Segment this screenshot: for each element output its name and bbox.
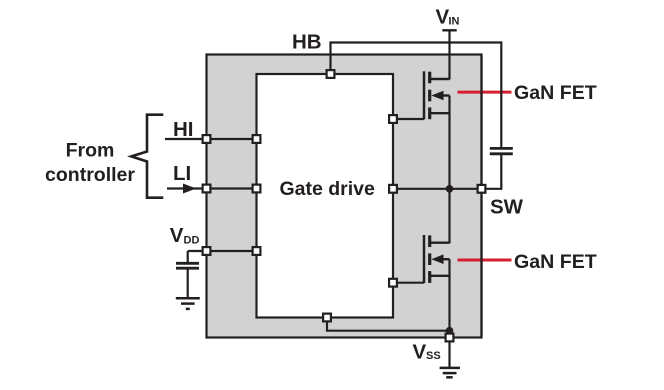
- svg-text:SW: SW: [490, 196, 524, 219]
- svg-text:LI: LI: [173, 162, 191, 185]
- svg-text:V: V: [436, 5, 450, 28]
- svg-text:Gate drive: Gate drive: [280, 178, 376, 200]
- svg-text:controller: controller: [45, 164, 135, 186]
- svg-text:HI: HI: [173, 118, 194, 141]
- svg-text:GaN FET: GaN FET: [514, 82, 597, 104]
- svg-text:SS: SS: [426, 350, 441, 362]
- svg-text:DD: DD: [184, 234, 200, 246]
- svg-text:HB: HB: [292, 31, 322, 54]
- svg-text:V: V: [413, 340, 427, 363]
- svg-text:IN: IN: [449, 15, 460, 27]
- svg-text:From: From: [66, 139, 115, 161]
- svg-text:GaN FET: GaN FET: [514, 251, 597, 273]
- svg-text:V: V: [170, 224, 184, 247]
